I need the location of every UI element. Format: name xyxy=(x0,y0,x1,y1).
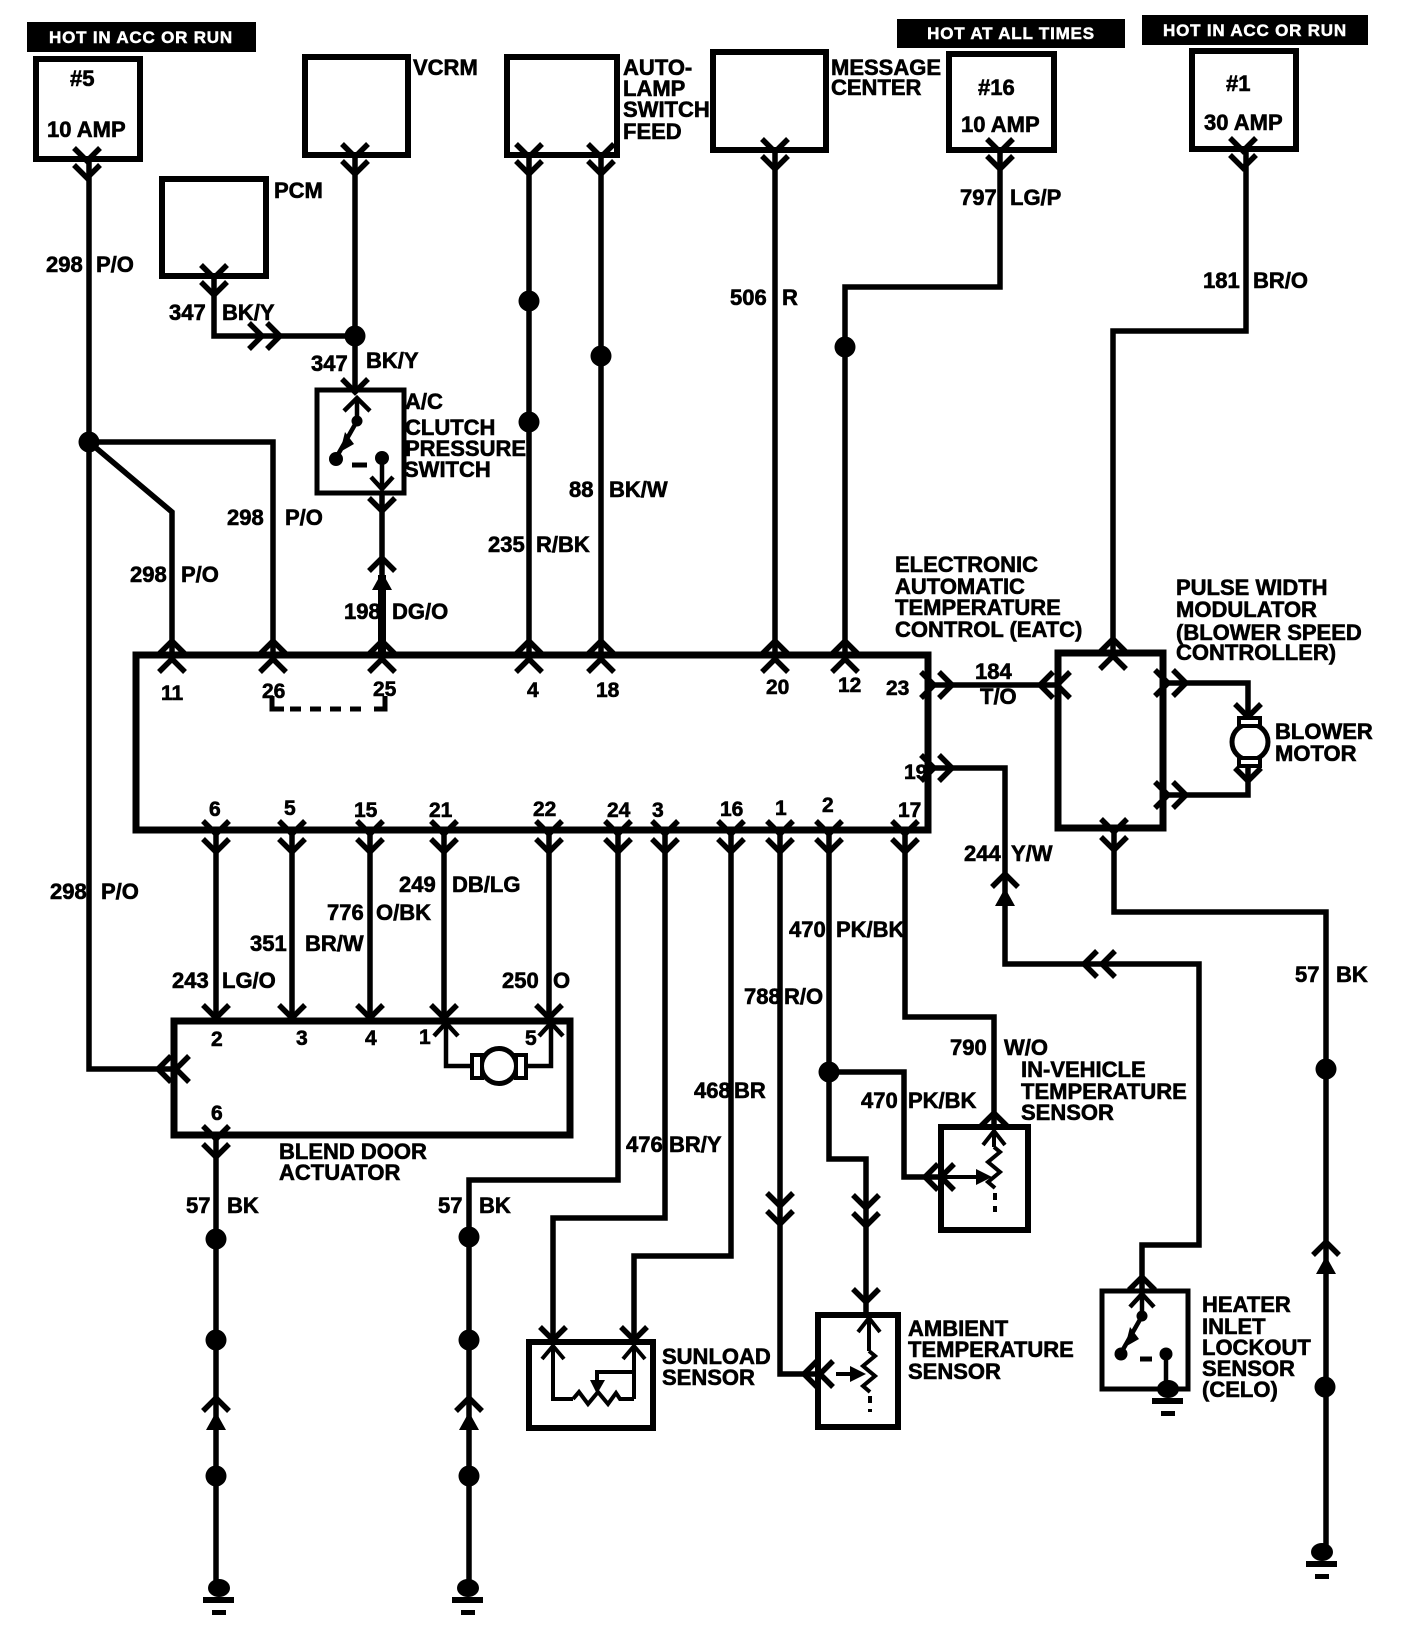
svg-text:6: 6 xyxy=(211,1102,223,1125)
svg-text:6: 6 xyxy=(209,798,221,821)
svg-text:#16: #16 xyxy=(978,75,1015,100)
svg-text:298: 298 xyxy=(227,505,264,530)
svg-text:BK: BK xyxy=(227,1193,259,1218)
svg-text:181: 181 xyxy=(1203,268,1240,293)
svg-text:PK/BK: PK/BK xyxy=(908,1088,977,1113)
svg-text:CENTER: CENTER xyxy=(831,75,922,100)
svg-text:DB/LG: DB/LG xyxy=(452,872,520,897)
svg-text:BK/Y: BK/Y xyxy=(222,300,275,325)
svg-text:#1: #1 xyxy=(1226,71,1250,96)
svg-text:CONTROL (EATC): CONTROL (EATC) xyxy=(895,617,1082,642)
svg-text:23: 23 xyxy=(886,677,909,700)
svg-text:(CELO): (CELO) xyxy=(1202,1377,1278,1402)
svg-text:5: 5 xyxy=(525,1027,537,1050)
svg-text:470: 470 xyxy=(861,1088,898,1113)
svg-text:18: 18 xyxy=(596,679,620,702)
svg-text:CONTROLLER): CONTROLLER) xyxy=(1176,640,1336,665)
svg-text:249: 249 xyxy=(399,872,436,897)
svg-text:O: O xyxy=(553,968,570,993)
svg-text:BK: BK xyxy=(1336,962,1368,987)
svg-text:MODULATOR: MODULATOR xyxy=(1176,597,1317,622)
svg-text:LG/O: LG/O xyxy=(222,968,276,993)
svg-text:470: 470 xyxy=(789,917,826,942)
svg-text:SENSOR: SENSOR xyxy=(662,1365,755,1390)
svg-text:LG/P: LG/P xyxy=(1010,185,1061,210)
svg-text:BR/Y: BR/Y xyxy=(669,1132,722,1157)
svg-text:HOT IN ACC OR RUN: HOT IN ACC OR RUN xyxy=(1163,21,1347,40)
svg-text:506: 506 xyxy=(730,285,767,310)
svg-text:4: 4 xyxy=(365,1027,377,1050)
svg-text:R/BK: R/BK xyxy=(536,532,590,557)
svg-text:184: 184 xyxy=(975,659,1012,684)
svg-text:BK/Y: BK/Y xyxy=(366,348,419,373)
svg-text:20: 20 xyxy=(766,676,789,699)
svg-text:22: 22 xyxy=(533,798,556,821)
svg-text:BR/W: BR/W xyxy=(305,931,364,956)
svg-text:30 AMP: 30 AMP xyxy=(1204,110,1283,135)
svg-text:ACTUATOR: ACTUATOR xyxy=(279,1160,401,1185)
svg-text:P/O: P/O xyxy=(96,252,134,277)
svg-text:5: 5 xyxy=(284,797,296,820)
svg-text:SENSOR: SENSOR xyxy=(1021,1100,1114,1125)
svg-text:P/O: P/O xyxy=(181,562,219,587)
svg-text:24: 24 xyxy=(607,799,631,822)
svg-text:PCM: PCM xyxy=(274,178,323,203)
svg-text:T/O: T/O xyxy=(980,684,1017,709)
svg-text:1: 1 xyxy=(775,797,787,820)
svg-text:21: 21 xyxy=(429,799,453,822)
svg-text:57: 57 xyxy=(438,1193,462,1218)
svg-text:4: 4 xyxy=(527,679,539,702)
svg-text:347: 347 xyxy=(169,300,206,325)
svg-text:3: 3 xyxy=(296,1027,308,1050)
svg-text:HOT AT ALL TIMES: HOT AT ALL TIMES xyxy=(927,24,1095,43)
svg-text:88: 88 xyxy=(569,477,593,502)
svg-text:243: 243 xyxy=(172,968,209,993)
svg-text:3: 3 xyxy=(652,799,664,822)
svg-text:1: 1 xyxy=(419,1026,431,1049)
svg-text:57: 57 xyxy=(186,1193,210,1218)
svg-text:790: 790 xyxy=(950,1035,987,1060)
svg-text:797: 797 xyxy=(960,185,997,210)
svg-text:17: 17 xyxy=(898,799,921,822)
svg-text:235: 235 xyxy=(488,532,525,557)
svg-text:26: 26 xyxy=(262,680,285,703)
svg-text:351: 351 xyxy=(250,931,287,956)
svg-text:#5: #5 xyxy=(70,66,94,91)
svg-text:BK: BK xyxy=(479,1193,511,1218)
svg-text:298: 298 xyxy=(130,562,167,587)
svg-text:2: 2 xyxy=(822,794,834,817)
svg-text:FEED: FEED xyxy=(623,119,682,144)
svg-text:Y/W: Y/W xyxy=(1011,841,1053,866)
svg-text:MOTOR: MOTOR xyxy=(1275,741,1357,766)
svg-text:11: 11 xyxy=(161,682,184,705)
svg-text:10 AMP: 10 AMP xyxy=(47,117,126,142)
svg-text:BR/O: BR/O xyxy=(1253,268,1308,293)
svg-text:P/O: P/O xyxy=(101,879,139,904)
svg-text:476: 476 xyxy=(626,1132,663,1157)
svg-text:R/O: R/O xyxy=(784,984,823,1009)
svg-text:P/O: P/O xyxy=(285,505,323,530)
svg-text:BR: BR xyxy=(734,1078,766,1103)
svg-text:SWITCH: SWITCH xyxy=(404,457,491,482)
svg-text:BK/W: BK/W xyxy=(609,477,668,502)
svg-text:R: R xyxy=(782,285,798,310)
svg-text:HOT IN ACC OR RUN: HOT IN ACC OR RUN xyxy=(49,28,233,47)
svg-text:347: 347 xyxy=(311,351,348,376)
svg-text:W/O: W/O xyxy=(1004,1035,1048,1060)
svg-text:788: 788 xyxy=(744,984,781,1009)
svg-text:O/BK: O/BK xyxy=(376,900,431,925)
svg-text:A/C: A/C xyxy=(405,389,443,414)
svg-text:776: 776 xyxy=(327,900,364,925)
svg-text:298: 298 xyxy=(46,252,83,277)
svg-text:10 AMP: 10 AMP xyxy=(961,112,1040,137)
svg-text:25: 25 xyxy=(373,678,397,701)
svg-text:DG/O: DG/O xyxy=(392,599,448,624)
svg-text:VCRM: VCRM xyxy=(413,55,478,80)
svg-text:468: 468 xyxy=(694,1078,731,1103)
svg-text:12: 12 xyxy=(838,674,861,697)
svg-text:2: 2 xyxy=(211,1028,223,1051)
svg-text:198: 198 xyxy=(344,599,381,624)
svg-text:PK/BK: PK/BK xyxy=(836,917,905,942)
svg-text:SENSOR: SENSOR xyxy=(908,1359,1001,1384)
svg-text:15: 15 xyxy=(354,799,378,822)
svg-text:16: 16 xyxy=(720,798,743,821)
svg-text:250: 250 xyxy=(502,968,539,993)
svg-text:19: 19 xyxy=(904,761,927,784)
svg-text:298: 298 xyxy=(50,879,87,904)
svg-text:57: 57 xyxy=(1295,962,1319,987)
svg-text:244: 244 xyxy=(964,841,1001,866)
